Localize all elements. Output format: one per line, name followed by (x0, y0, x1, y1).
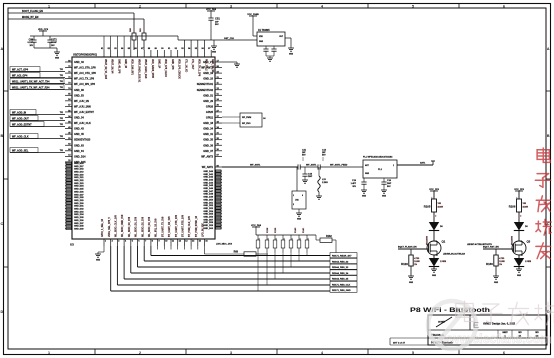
svg-text:GND_D51: GND_D51 (203, 202, 213, 204)
svg-text:GND_1P8: GND_1P8 (171, 59, 173, 70)
wire bottom pins short stubs (158, 246, 205, 250)
svg-text:15: 15 (199, 241, 202, 243)
svg-text:WD11_UART1_RX_WF_ACT_TX4: WD11_UART1_RX_WF_ACT_TX4 (12, 80, 50, 83)
svg-text:GND_34: GND_34 (74, 117, 84, 120)
svg-text:16: 16 (205, 241, 208, 243)
svg-text:TX1: TX1 (60, 81, 63, 83)
svg-text:GND: GND (259, 41, 264, 43)
svg-text:VDD_1P0_CBUCK: VDD_1P0_CBUCK (178, 59, 180, 79)
svg-text:WF_ACI_CTA_1P8: WF_ACI_CTA_1P8 (74, 72, 96, 75)
capacitor C12 series (318, 150, 363, 170)
diode D-Q3 lower LED (514, 258, 532, 269)
svg-text:GND_D52: GND_D52 (203, 205, 213, 207)
svg-text:WF_ANT1_FEED: WF_ANT1_FEED (330, 164, 348, 167)
svg-text:WF_AJU_1NN: WF_AJU_1NN (74, 105, 91, 108)
svg-text:GND_D27: GND_D27 (74, 194, 84, 196)
svg-text:1.4PF: 1.4PF (351, 182, 357, 185)
left net label wires (10, 67, 65, 153)
IC U3 right pin WF_ANT1 (202, 165, 222, 169)
svg-text:1/16W: 1/16W (499, 261, 505, 263)
resistor R162 (316, 235, 336, 256)
svg-text:GND: GND (517, 275, 522, 277)
wire GND_V7 stub (222, 62, 240, 67)
svg-text:TX1: TX1 (60, 75, 63, 77)
svg-text:1: 1 (300, 239, 301, 241)
ground X1 out (288, 48, 294, 56)
svg-text:B: B (0, 134, 3, 138)
svg-text:C172: C172 (51, 39, 57, 42)
capacitor C98 (28, 36, 37, 48)
svg-text:GND_D16: GND_D16 (74, 163, 84, 165)
svg-text:GND_31: GND_31 (203, 133, 213, 136)
svg-text:RD171_REAR_1K7: RD171_REAR_1K7 (332, 255, 352, 258)
power VDD_CP8 (38, 29, 49, 36)
svg-text:4: 4 (321, 4, 323, 8)
svg-text:745: 745 (438, 202, 442, 205)
svg-text:1: 1 (259, 239, 260, 241)
svg-text:91: 91 (168, 48, 171, 50)
svg-text:XTL_1N_XO: XTL_1N_XO (184, 59, 186, 72)
svg-text:LNH_MDC_1K9: LNH_MDC_1K9 (216, 244, 233, 246)
svg-text:C16: C16 (387, 180, 392, 182)
svg-text:GND_48: GND_48 (124, 59, 127, 69)
svg-text:BQ1T_FLASH_EN: BQ1T_FLASH_EN (398, 246, 417, 249)
capacitor C19 (351, 178, 367, 198)
svg-text:GND_D43: GND_D43 (203, 178, 213, 181)
svg-text:VBAT_1N_V4: VBAT_1N_V4 (111, 59, 114, 74)
resistor R130 (486, 249, 505, 276)
svg-text:WF_ANT1: WF_ANT1 (306, 164, 317, 167)
svg-text:GND_D29: GND_D29 (74, 200, 84, 202)
svg-text:R138: R138 (267, 227, 269, 233)
svg-text:GND_D60: GND_D60 (203, 228, 213, 230)
svg-text:GND_29: GND_29 (203, 100, 213, 103)
capacitor C21 series (298, 150, 318, 170)
svg-text:FL1: FL1 (378, 169, 383, 171)
svg-text:8: 8 (152, 241, 154, 243)
svg-text:GND_D39: GND_D39 (74, 228, 84, 230)
svg-text:GND_D33: GND_D33 (74, 211, 84, 213)
svg-text:GND_45: GND_45 (74, 133, 84, 136)
svg-text:ANT: ANT (365, 164, 370, 167)
wire GPI pins to PWM box (222, 117, 240, 123)
svg-text:U3(TOP/GND/GPIO): U3(TOP/GND/GPIO) (73, 53, 97, 57)
power VCC_PA8 bank (251, 224, 262, 235)
svg-text:RD344_RES_25: RD344_RES_25 (332, 278, 349, 281)
svg-text:81: 81 (101, 48, 104, 50)
svg-text:WF_PNO: WF_PNO (242, 123, 251, 125)
svg-text:13: 13 (185, 241, 188, 243)
svg-text:WF_ACT_GP4: WF_ACT_GP4 (12, 68, 29, 71)
svg-text:C: C (0, 222, 3, 226)
ground bottom-left (95, 254, 101, 262)
ground under R129 (408, 276, 414, 284)
wire rail drops to top pins (104, 36, 138, 50)
svg-text:R130: R130 (486, 262, 493, 266)
svg-text:84: 84 (121, 47, 124, 50)
op-amp U3 main WiFi/BT IC body (70, 53, 215, 247)
wire R105 to diode (433, 212, 435, 222)
svg-text:C19: C19 (352, 180, 357, 182)
svg-text:4.7K0: 4.7K0 (414, 257, 419, 260)
svg-text:AVNET: AVNET (438, 321, 446, 324)
capacitor C101 under X1 (263, 46, 268, 56)
svg-text:GND_D50: GND_D50 (203, 199, 213, 201)
svg-text:A: A (0, 47, 3, 51)
svg-text:RD344_RES_23: RD344_RES_23 (332, 266, 349, 269)
svg-text:GND_64: GND_64 (74, 150, 84, 153)
svg-text:16V: 16V (29, 45, 33, 47)
svg-text:GND_1P: GND_1P (158, 59, 160, 69)
power VCC_1P8 for Q3 (514, 189, 525, 199)
wire FL1 out (397, 161, 435, 165)
ground under Q3 (516, 269, 522, 277)
svg-text:WL_SDIO_D3_1V8: WL_SDIO_D3_1V8 (149, 216, 151, 237)
svg-text:50V: 50V (387, 186, 391, 188)
power VCC_PA8B crystal (247, 13, 259, 36)
ground under X1 caps (267, 58, 273, 61)
svg-text:GND_18: GND_18 (203, 122, 213, 125)
svg-text:J4: J4 (263, 117, 266, 120)
svg-text:50V: 50V (302, 155, 306, 157)
svg-text:LED/WLAN-ACT/WLAN: LED/WLAN-ACT/WLAN (443, 253, 465, 256)
svg-text:1.2NH: 1.2NH (322, 182, 328, 184)
wire MODE_BT_EN (8, 16, 144, 33)
svg-text:Q3: Q3 (527, 240, 531, 244)
svg-text:GND_53: GND_53 (74, 94, 84, 97)
svg-text:12: 12 (179, 241, 182, 243)
svg-text:WD11_UART1_TX_WF_ACT_RX4: WD11_UART1_TX_WF_ACT_RX4 (12, 86, 50, 89)
svg-text:1: 1 (516, 197, 517, 199)
svg-text:GND: GND (212, 52, 217, 54)
svg-text:GND_D32: GND_D32 (74, 209, 84, 211)
svg-text:VCC_PA8: VCC_PA8 (251, 224, 262, 227)
svg-text:OUT: OUT (279, 36, 284, 38)
svg-text:VBAT_RAD1_2G5_V1: VBAT_RAD1_2G5_V1 (137, 59, 140, 83)
svg-text:WF_PWM: WF_PWM (242, 117, 251, 119)
svg-text:745: 745 (523, 202, 527, 205)
resistor R129 (401, 249, 420, 276)
svg-text:GND_D18: GND_D18 (74, 169, 84, 171)
diode D-Q3 upper (511, 222, 529, 245)
inductor L13 shunt (316, 167, 328, 199)
IC U3 right pins upper group (197, 60, 222, 158)
svg-text:R106: R106 (509, 205, 516, 209)
svg-text:GND_D24: GND_D24 (74, 185, 84, 188)
svg-text:1: 1 (308, 239, 309, 241)
resistor R106 (509, 197, 528, 217)
svg-text:www.elecfans.com: www.elecfans.com (439, 332, 551, 346)
svg-text:1: 1 (48, 351, 50, 355)
svg-text:BT_PCM_SYNC_18: BT_PCM_SYNC_18 (196, 215, 198, 237)
svg-text:U3: U3 (70, 243, 74, 247)
svg-text:WF_AOD_CLK: WF_AOD_CLK (12, 135, 29, 138)
svg-text:VDD: VDD (259, 36, 263, 38)
svg-text:4: 4 (125, 240, 127, 243)
svg-text:1.74RB: 1.74RB (525, 260, 532, 263)
svg-text:5: 5 (132, 241, 134, 243)
wire OSC rail (178, 36, 257, 40)
svg-text:VDD_TH_2_1P8: VDD_TH_2_1P8 (198, 59, 200, 77)
svg-text:BT_UART_TX_1V8: BT_UART_TX_1V8 (161, 216, 164, 237)
svg-text:BT_PCM_CLK_1V8: BT_PCM_CLK_1V8 (189, 215, 191, 237)
svg-text:4: 4 (321, 351, 323, 355)
svg-text:R91: R91 (140, 27, 142, 32)
svg-text:1: 1 (284, 239, 285, 241)
svg-text:B: B (547, 134, 550, 138)
svg-text:BOOT_FLASH_EN: BOOT_FLASH_EN (22, 10, 43, 13)
svg-text:93: 93 (181, 48, 184, 50)
ground under Q1 (431, 269, 437, 277)
resistor R105 (424, 197, 443, 217)
svg-text:VBAT_1N_V1_2G5: VBAT_1N_V1_2G5 (104, 59, 107, 80)
svg-text:97: 97 (208, 48, 211, 50)
svg-text:GND_D35: GND_D35 (74, 217, 84, 219)
svg-text:50V: 50V (215, 24, 219, 26)
svg-text:GND_35: GND_35 (203, 139, 213, 142)
svg-text:WF_ACI_GP4: WF_ACI_GP4 (12, 74, 28, 77)
svg-text:83: 83 (114, 48, 117, 50)
svg-text:GND_10: GND_10 (203, 78, 213, 81)
wire top rail drops right (184, 40, 204, 50)
svg-text:D8: D8 (525, 226, 528, 228)
svg-text:P8 W/Fi - Bluetooth: P8 W/Fi - Bluetooth (410, 307, 490, 314)
svg-text:R162: R162 (326, 235, 332, 238)
resistor R69 (234, 251, 268, 257)
svg-text:GND: GND (365, 173, 370, 175)
svg-text:WF_AJU_CLK: WF_AJU_CLK (74, 122, 91, 125)
svg-text:GPI25: GPI25 (206, 111, 214, 114)
power VCC_1P8 for Q1 (429, 189, 440, 199)
svg-text:6: 6 (302, 195, 303, 197)
svg-text:GND: GND (289, 54, 294, 56)
svg-text:89: 89 (155, 48, 158, 50)
svg-text:3: 3 (230, 351, 232, 355)
wire gate net BQ1T_FLASH_EN (398, 246, 465, 256)
svg-text:GND_D47: GND_D47 (203, 190, 213, 193)
resistor R91 series jumper (140, 27, 146, 50)
IC U3 left pins upper group (65, 60, 96, 164)
svg-text:JTAG_SEL_1P8_V: JTAG_SEL_1P8_V (108, 217, 111, 237)
svg-text:1: 1 (105, 241, 107, 243)
svg-text:ANT1: ANT1 (420, 162, 426, 165)
svg-text:3: 3 (118, 241, 120, 243)
svg-text:94: 94 (188, 47, 191, 50)
svg-text:TX1: TX1 (60, 118, 63, 120)
svg-text:GND: GND (55, 58, 60, 60)
ground under U16 (296, 213, 302, 221)
crystal X1 740805 (257, 29, 291, 46)
svg-text:WF_AJU_1N: WF_AJU_1N (74, 100, 89, 103)
svg-text:R129: R129 (401, 262, 408, 266)
svg-text:RD344_RES_24: RD344_RES_24 (332, 272, 349, 275)
svg-text:GND_D57: GND_D57 (203, 219, 213, 221)
svg-text:2: 2 (139, 351, 141, 355)
svg-text:WF_ANT1: WF_ANT1 (250, 164, 261, 167)
svg-text:GND_D28: GND_D28 (74, 197, 84, 199)
svg-text:GND_D20: GND_D20 (74, 174, 84, 176)
svg-text:1: 1 (292, 239, 293, 241)
svg-text:U16: U16 (295, 200, 300, 202)
svg-text:WF_ACI_WS_1P8: WF_ACI_WS_1P8 (74, 83, 95, 86)
wire X1 out (290, 38, 292, 48)
svg-text:GND_43: GND_43 (74, 128, 84, 131)
svg-text:Q1: Q1 (442, 240, 446, 244)
svg-text:TX1: TX1 (60, 136, 63, 138)
IC U3 left pins dense GND group (65, 162, 84, 231)
svg-text:GND_D21: GND_D21 (74, 177, 84, 179)
sheet title text (410, 307, 490, 314)
svg-text:1: 1 (293, 195, 294, 197)
svg-text:WF_ACI_TX_1P8: WF_ACI_TX_1P8 (74, 78, 95, 81)
svg-text:GND_TP_RF: GND_TP_RF (211, 59, 213, 73)
svg-text:1: 1 (393, 165, 394, 167)
svg-text:GND_D23: GND_D23 (74, 183, 84, 185)
wire diode to Q3 drain (518, 231, 520, 242)
svg-text:WF_AJU_EXTNT: WF_AJU_EXTNT (74, 111, 94, 114)
svg-text:RD171_RES_GND: RD171_RES_GND (332, 290, 351, 292)
watermark bottom-right logo (428, 301, 554, 349)
labels bank designators (267, 227, 305, 233)
svg-text:R105: R105 (424, 205, 431, 209)
capacitor C18 shunt (302, 167, 313, 183)
svg-text:GPI26: GPI26 (206, 105, 214, 108)
svg-text:1: 1 (276, 239, 277, 241)
svg-text:14: 14 (192, 240, 195, 243)
svg-text:90: 90 (161, 48, 164, 50)
svg-text:GND_D42: GND_D42 (203, 176, 213, 179)
net label stack (330, 253, 357, 293)
wire bottom pin bus to net stack (111, 246, 330, 291)
svg-text:SENSEVTH01: SENSEVTH01 (197, 83, 214, 86)
svg-text:GND_D54: GND_D54 (203, 210, 213, 213)
svg-text:VCC_PA8: VCC_PA8 (206, 8, 217, 11)
svg-text:GND: GND (362, 196, 367, 198)
svg-text:GND_D26: GND_D26 (74, 191, 84, 193)
svg-text:WF_ACI_STA_1P8: WF_ACI_STA_1P8 (74, 67, 96, 70)
wire diode to Q1 drain (433, 231, 435, 242)
svg-text:1/16W: 1/16W (414, 261, 420, 263)
transistor Q1 (427, 240, 446, 256)
svg-text:BT_UART_RTS_1V8: BT_UART_RTS_1V8 (182, 214, 185, 237)
svg-text:WF_AOD_SEL: WF_AOD_SEL (12, 149, 29, 152)
title block (390, 315, 547, 345)
svg-text:2: 2 (112, 241, 114, 243)
svg-text:2: 2 (293, 204, 294, 206)
svg-text:1: 1 (48, 4, 50, 8)
svg-text:R139: R139 (275, 227, 277, 233)
wire match branch (296, 167, 298, 191)
svg-text:R140: R140 (294, 227, 297, 233)
svg-text:GND_D48: GND_D48 (203, 193, 213, 196)
diode D-Q1 upper (426, 222, 444, 245)
svg-text:X1 740805: X1 740805 (258, 29, 270, 32)
svg-text:GND_D40: GND_D40 (203, 170, 213, 173)
node bank rail (256, 234, 316, 236)
svg-text:GND_D37: GND_D37 (74, 223, 84, 225)
svg-text:6: 6 (503, 4, 505, 8)
svg-text:BQ1T_RST_EN: BQ1T_RST_EN (483, 247, 499, 249)
capacitor C51 (208, 17, 220, 41)
svg-text:GND_43: GND_43 (74, 61, 84, 64)
svg-text:6: 6 (138, 241, 140, 243)
svg-text:GND_34: GND_34 (203, 128, 213, 131)
svg-text:TX1: TX1 (60, 150, 63, 152)
svg-text:GND_36: GND_36 (203, 144, 213, 147)
svg-text:3: 3 (230, 4, 232, 8)
wire caps tie (34, 48, 57, 52)
svg-text:GND_D46: GND_D46 (203, 187, 213, 190)
svg-text:GND: GND (494, 282, 499, 284)
svg-text:WL_SDIO_D0_1V8: WL_SDIO_D0_1V8 (129, 216, 131, 237)
transistor Q3 (512, 240, 531, 256)
svg-text:GND_45_1P8: GND_45_1P8 (117, 59, 120, 74)
svg-text:WF_AOD_OUT: WF_AOD_OUT (12, 117, 29, 120)
svg-text:WL_SDIO_CLK_1V8: WL_SDIO_CLK_1V8 (116, 214, 118, 237)
svg-text:GND_D45: GND_D45 (203, 184, 213, 187)
svg-text:88: 88 (148, 48, 151, 50)
svg-text:86: 86 (134, 48, 137, 50)
svg-text:GND_D59: GND_D59 (203, 225, 213, 227)
svg-text:GND_D17: GND_D17 (74, 166, 84, 168)
svg-text:GND_D31: GND_D31 (74, 206, 84, 208)
capacitor C172 (47, 36, 57, 48)
svg-text:TX1: TX1 (60, 112, 63, 114)
svg-text:1%: 1% (499, 264, 502, 266)
resistors bank R138-R141 bodies (256, 235, 309, 291)
wire LPO net (205, 244, 245, 255)
IC U3 right pins dense GND group (203, 170, 222, 230)
svg-text:A: A (547, 47, 550, 51)
svg-text:WF_ANT1: WF_ANT1 (202, 166, 214, 169)
svg-text:GND_D41: GND_D41 (203, 173, 213, 176)
wire BOOT_FLASH_EN (8, 10, 134, 33)
svg-text:GPI21: GPI21 (206, 117, 214, 120)
svg-text:85: 85 (128, 48, 131, 50)
wire X1 caps tie (266, 56, 274, 58)
svg-text:GND_D49: GND_D49 (203, 196, 213, 199)
ground on OSC rail (211, 40, 217, 54)
svg-text:AVD_RAD8_1P35: AVD_RAD8_1P35 (151, 59, 154, 79)
svg-text:C51: C51 (215, 17, 220, 21)
ground under C172 (54, 52, 60, 60)
svg-text:GND_38: GND_38 (74, 89, 84, 92)
filter U16 balun box (292, 191, 306, 213)
wire WF_ANT1 main (222, 164, 298, 168)
svg-text:GND_D58: GND_D58 (203, 222, 213, 224)
svg-text:GND: GND (409, 282, 414, 284)
svg-text:DNP: DNP (308, 176, 313, 178)
wire Q1 source (434, 255, 437, 258)
svg-text:VBAT_RAD1_2G8: VBAT_RAD1_2G8 (144, 59, 147, 79)
svg-text:WF_AOD_EXTNT: WF_AOD_EXTNT (12, 123, 32, 126)
svg-text:LED/BT-ACT/BLUETOOTH: LED/BT-ACT/BLUETOOTH (467, 243, 492, 246)
svg-text:5: 5 (412, 351, 414, 355)
svg-text:DNP: DNP (387, 183, 392, 185)
svg-text:11: 11 (172, 241, 175, 243)
svg-text:6: 6 (503, 351, 505, 355)
svg-text:VCC_1P8: VCC_1P8 (514, 189, 525, 191)
capacitor C16 (381, 178, 392, 198)
svg-text:GND: GND (96, 260, 101, 262)
svg-text:RD171_RES_CLK: RD171_RES_CLK (332, 284, 351, 286)
svg-text:GND_D38: GND_D38 (74, 226, 84, 228)
svg-text:R141: R141 (302, 227, 305, 233)
svg-text:SENSEVTH23: SENSEVTH23 (74, 139, 91, 142)
capacitor C102 under X1 (271, 46, 276, 56)
ground under R130 (493, 276, 499, 284)
svg-text:4.7K0: 4.7K0 (499, 257, 504, 260)
